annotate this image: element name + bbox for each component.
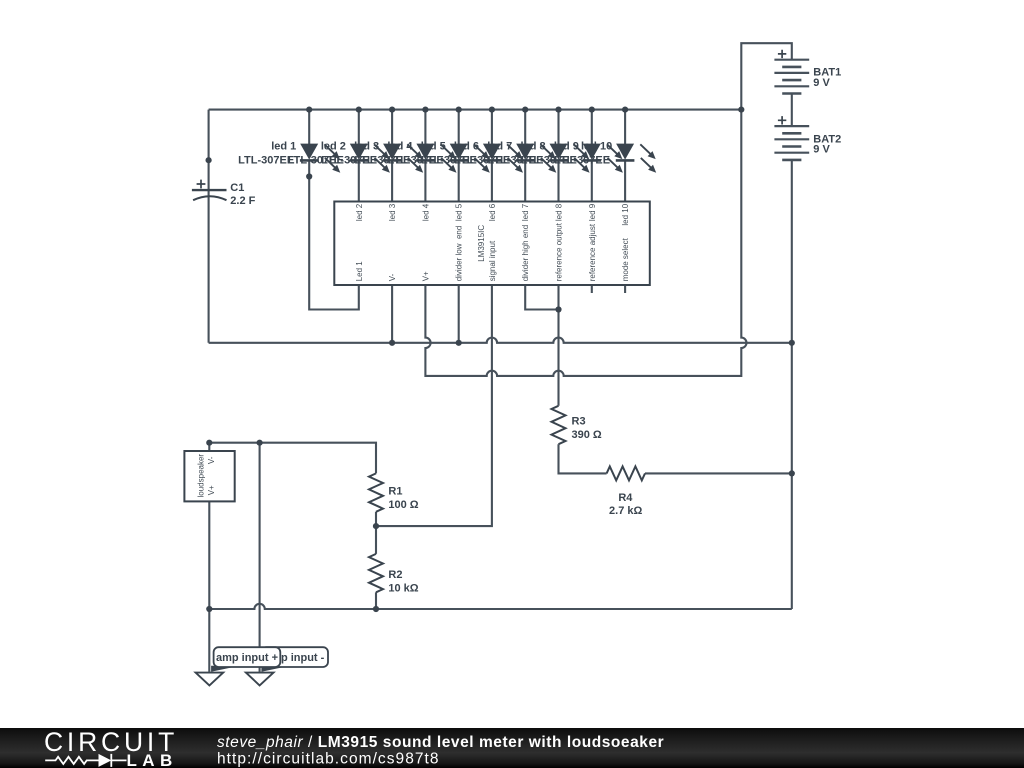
wire R1 bottom to R2 top (375, 512, 377, 554)
LED D8 symbol (549, 144, 589, 173)
svg-text:LTL-307EE: LTL-307EE (238, 154, 294, 166)
wire left rail through C1 (208, 110, 210, 343)
svg-text:R2: R2 (388, 569, 402, 581)
LED D6 symbol (483, 144, 523, 173)
op-amp IC U1 LM3915IC box (334, 202, 650, 286)
svg-text:amp input +: amp input + (216, 652, 278, 664)
svg-text:led 6: led 6 (454, 141, 479, 153)
svg-text:9 V: 9 V (813, 144, 830, 156)
svg-text:led 5: led 5 (421, 141, 446, 153)
wire anode led 3 (391, 110, 393, 145)
net flag amp input + box (214, 647, 281, 667)
LED D10 symbol (616, 144, 656, 173)
svg-text:led 10: led 10 (621, 203, 630, 225)
LED D5 symbol (449, 144, 489, 173)
wire led 7 cathode to IC pin (524, 160, 526, 201)
svg-text:led 3: led 3 (388, 203, 397, 221)
wire R3 bottom to R4 left (559, 444, 607, 473)
svg-text:2.2 F: 2.2 F (230, 195, 255, 207)
junction dots (all nodes) (206, 107, 795, 613)
svg-text:100 Ω: 100 Ω (388, 499, 418, 511)
svg-text:V+: V+ (207, 485, 216, 495)
wire led 9 cathode to IC pin (591, 160, 593, 201)
svg-text:loudspeaker: loudspeaker (197, 454, 206, 498)
svg-text:divider low end: divider low end (455, 226, 464, 282)
svg-text:led 7: led 7 (521, 203, 530, 221)
wire amp input - from loudspeaker net (259, 443, 261, 672)
svg-text:Led 1: Led 1 (355, 261, 364, 282)
svg-text:R1: R1 (388, 486, 402, 498)
svg-text:C1: C1 (230, 182, 244, 194)
battery BAT2 symbol (774, 116, 809, 160)
wire anode led 5 (458, 110, 460, 145)
wire V+ pin to battery positive (hops over V- net) (425, 43, 791, 376)
svg-text:390 Ω: 390 Ω (572, 429, 602, 441)
wire loudspeaker net line (209, 443, 376, 474)
ground (amp input +) (196, 673, 224, 686)
svg-text:V+: V+ (421, 271, 430, 281)
wire stub IC pin reference adjust (591, 285, 593, 293)
svg-text:led 5: led 5 (455, 203, 464, 221)
svg-text:9 V: 9 V (813, 77, 830, 89)
svg-text:led 1: led 1 (271, 141, 296, 153)
LED D3 symbol (383, 144, 423, 173)
svg-text:2.7 kΩ: 2.7 kΩ (609, 505, 642, 517)
svg-text:mode select: mode select (621, 237, 630, 281)
wire anode led 4 (424, 110, 426, 145)
LED D2 symbol (350, 144, 390, 173)
LED D1 symbol (300, 144, 340, 173)
svg-text:led 9: led 9 (554, 141, 579, 153)
wire IC pin signal input to R1/R2 midpoint (376, 285, 492, 526)
wire stub IC pin mode select (624, 285, 626, 293)
CircuitLab logo resistor-diode glyph (45, 754, 126, 767)
svg-text:R3: R3 (572, 416, 586, 428)
svg-text:LM3915IC: LM3915IC (477, 225, 486, 262)
svg-text:led 8: led 8 (521, 141, 546, 153)
svg-text:led 9: led 9 (588, 203, 597, 221)
capacitor C1 top plate (192, 189, 227, 191)
net flag amp input - box (261, 647, 328, 667)
svg-text:signal input: signal input (488, 240, 497, 281)
wire battery negative down right rail to bottom rail (hop over amp input - wire) (791, 160, 793, 609)
capacitor C1 polarity plus (197, 180, 206, 189)
svg-text:V-: V- (388, 273, 397, 281)
svg-text:R4: R4 (618, 492, 633, 504)
wire loudspeaker top pin (208, 443, 210, 451)
resistor R1 symbol (369, 473, 383, 511)
svg-text:divider high end: divider high end (521, 225, 530, 281)
svg-text:reference adjust: reference adjust (588, 223, 597, 281)
wire led 6 cathode to IC pin (491, 160, 493, 201)
wire anode led 6 (491, 110, 493, 145)
svg-text:reference output: reference output (555, 222, 564, 281)
wire V- net line with hops (209, 338, 792, 343)
svg-text:http://circuitlab.com/cs987t8: http://circuitlab.com/cs987t8 (217, 750, 440, 767)
wire led 8 cathode to IC pin (557, 160, 559, 201)
svg-text:led 8: led 8 (555, 203, 564, 221)
wire led 3 cathode to IC pin (391, 160, 393, 201)
svg-text:steve_phair / LM3915 sound lev: steve_phair / LM3915 sound level meter w… (217, 734, 664, 751)
wire led 10 cathode to IC pin (624, 160, 626, 201)
wire anode led 9 (591, 110, 593, 145)
wire loudspeaker bottom pin to bottom rail and amp input + flag (208, 501, 210, 672)
LED D7 symbol (516, 144, 556, 173)
wire R4 right to right rail (645, 472, 792, 474)
wire anode led 10 (624, 110, 626, 145)
svg-text:V-: V- (207, 456, 216, 464)
wire anode led 1 (308, 110, 310, 145)
svg-text:LAB: LAB (127, 751, 178, 768)
loudspeaker LS1 box (184, 451, 234, 501)
wire led 5 cathode to IC pin (458, 160, 460, 201)
wire battery BAT1 to BAT2 (791, 94, 793, 127)
capacitor C1 curved plate (193, 196, 226, 200)
ground (amp input -) (246, 673, 274, 686)
resistor R2 symbol (369, 554, 383, 592)
svg-text:led 10: led 10 (581, 141, 612, 153)
svg-text:LTL-307EE: LTL-307EE (554, 154, 610, 166)
wire IC pin divider low end to V- net (458, 285, 460, 343)
svg-text:led 7: led 7 (487, 141, 512, 153)
svg-text:led 4: led 4 (421, 203, 430, 221)
svg-text:led 2: led 2 (321, 141, 346, 153)
wire led 4 cathode to IC pin (424, 160, 426, 201)
battery BAT1 symbol (774, 50, 809, 94)
wire IC pin V- to V- net (391, 285, 393, 343)
wire anode led 8 (557, 110, 559, 145)
svg-text:led 2: led 2 (355, 203, 364, 221)
wire led 2 cathode to IC pin (358, 160, 360, 201)
resistor R4 symbol (607, 466, 645, 480)
resistor R3 symbol (552, 406, 566, 444)
net flag amp input - tail (261, 666, 290, 672)
wire led 1 cathode to IC pin Led 1 (309, 160, 359, 309)
wire V+ top rail (209, 109, 742, 111)
wire anode led 2 (358, 110, 360, 145)
wire IC pin divider high end jog to reference output (525, 285, 558, 310)
svg-text:led 4: led 4 (387, 141, 413, 153)
net flag amp input + tail (211, 666, 240, 672)
wire anode led 7 (524, 110, 526, 145)
wire R2 bottom to bottom rail (375, 592, 377, 609)
svg-text:10 kΩ: 10 kΩ (388, 582, 418, 594)
svg-text:led 6: led 6 (488, 203, 497, 221)
wire IC pin reference output down to R3 (557, 285, 559, 406)
svg-text:led 3: led 3 (354, 141, 379, 153)
LED D9 symbol (583, 144, 623, 173)
LED D4 symbol (416, 144, 456, 173)
